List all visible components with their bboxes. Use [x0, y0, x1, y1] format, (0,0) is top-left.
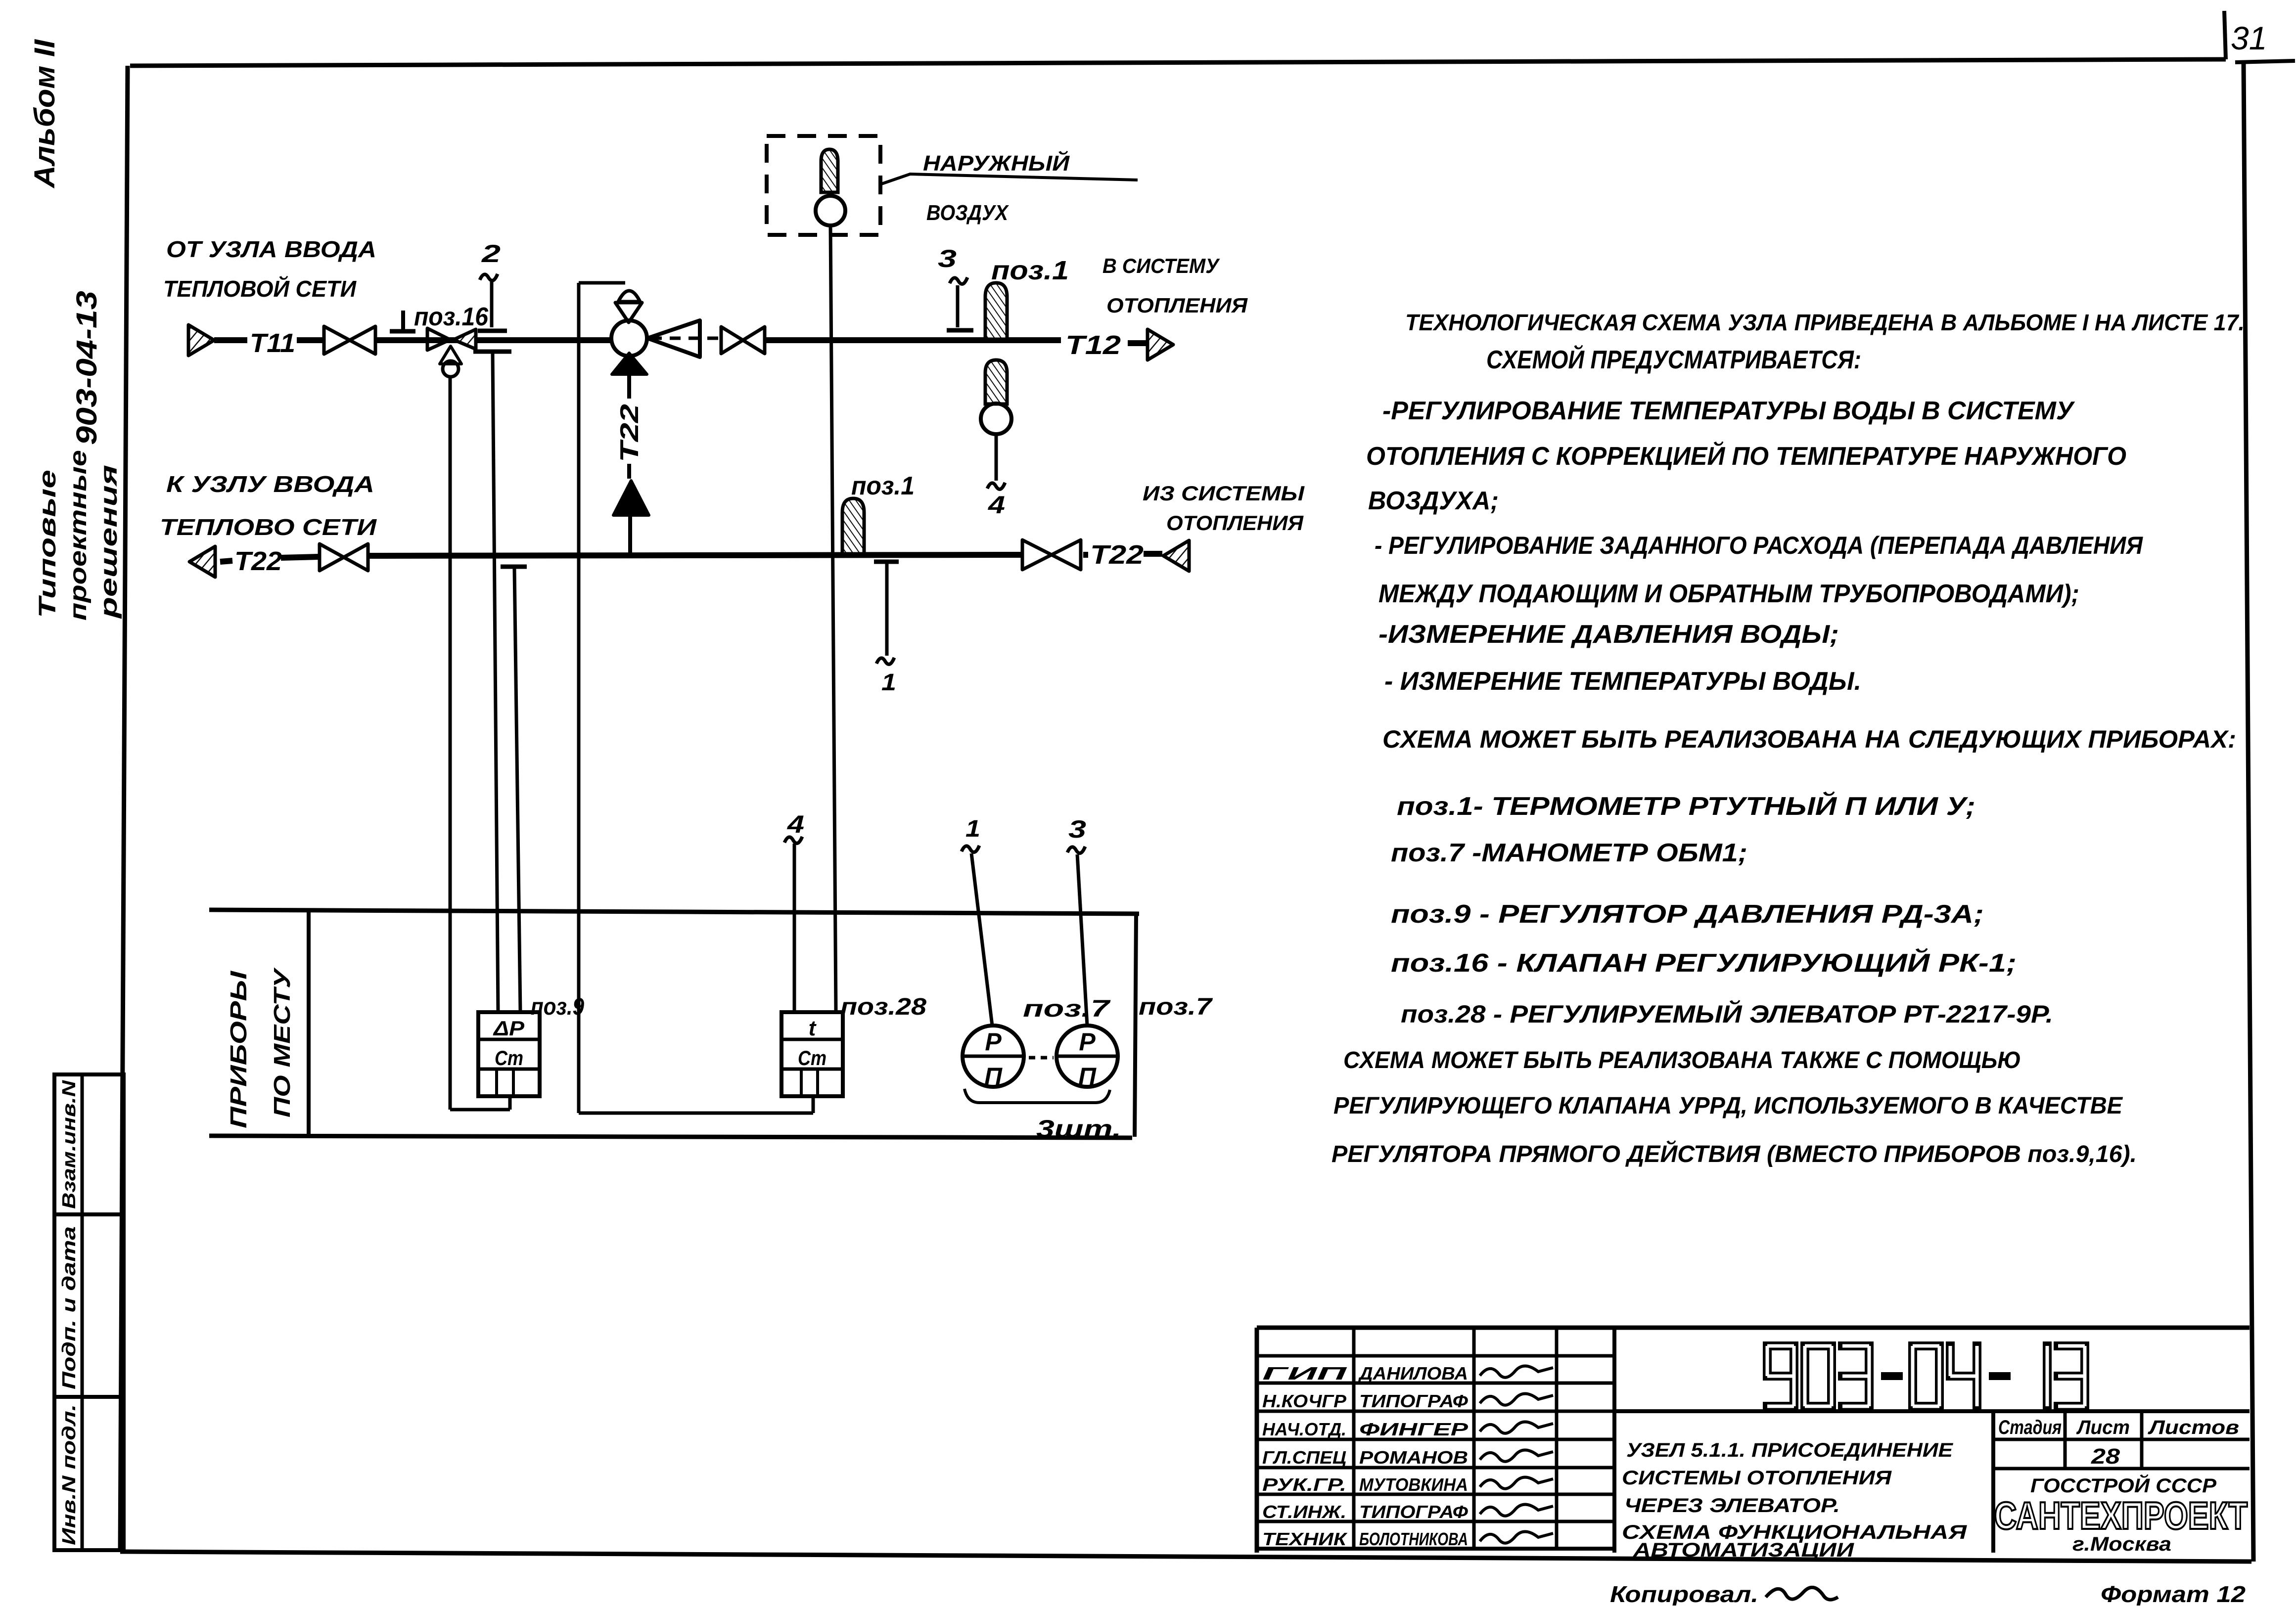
- svg-text:Подп. и дата: Подп. и дата: [59, 1226, 80, 1389]
- svg-text:1: 1: [881, 670, 896, 696]
- svg-text:поз.1: поз.1: [991, 256, 1069, 285]
- svg-text:РЕГУЛЯТОРА ПРЯМОГО ДЕЙСТВИЯ (В: РЕГУЛЯТОРА ПРЯМОГО ДЕЙСТВИЯ (ВМЕСТО ПРИБ…: [1332, 1140, 2137, 1167]
- regulating valve RK-1 (поз.16, 3-way): [427, 328, 450, 350]
- signatures: [1480, 1366, 1553, 1377]
- svg-text:3шт.: 3шт.: [1036, 1115, 1121, 1143]
- impulse line 3: [956, 285, 960, 327]
- suction triangle lower: [613, 481, 649, 515]
- document number 903-04-13 (large): [1767, 1346, 1794, 1406]
- border frame right: [2244, 62, 2253, 1562]
- mercury thermometer поз.1 on return: [842, 498, 864, 554]
- callout leader: [881, 174, 1138, 184]
- pipe T22 return line: [220, 561, 232, 562]
- border frame left: [120, 66, 128, 1552]
- svg-text:ФИНГЕР: ФИНГЕР: [1359, 1419, 1469, 1439]
- svg-text:поз.7 -МАНОМЕТР ОБМ1;: поз.7 -МАНОМЕТР ОБМ1;: [1391, 839, 1747, 867]
- svg-text:- ИЗМЕРЕНИЕ ТЕМПЕРАТУРЫ ВОДЫ.: - ИЗМЕРЕНИЕ ТЕМПЕРАТУРЫ ВОДЫ.: [1384, 667, 1861, 696]
- svg-text:поз.1: поз.1: [851, 472, 915, 500]
- svg-text:поз.7: поз.7: [1139, 994, 1213, 1020]
- svg-text:4: 4: [988, 491, 1005, 519]
- svg-text:ИЗ СИСТЕМЫ: ИЗ СИСТЕМЫ: [1143, 482, 1305, 505]
- svg-text:3: 3: [938, 245, 957, 272]
- svg-text:ОТОПЛЕНИЯ: ОТОПЛЕНИЯ: [1166, 511, 1304, 535]
- svg-text:СТ.ИНЖ.: СТ.ИНЖ.: [1262, 1502, 1346, 1522]
- svg-text:Копировал.: Копировал.: [1610, 1581, 1758, 1606]
- svg-text:Альбом II: Альбом II: [29, 39, 61, 189]
- gate valve on return left: [320, 544, 344, 571]
- svg-text:ВОЗДУХА;: ВОЗДУХА;: [1368, 487, 1499, 515]
- svg-text:Ст: Ст: [798, 1046, 827, 1070]
- svg-text:ПРИБОРЫ: ПРИБОРЫ: [226, 971, 251, 1128]
- suction branch with label T22: [627, 376, 631, 399]
- svg-text:Типовые: Типовые: [35, 470, 61, 618]
- panel boundary (приборы по месту): [209, 910, 1139, 914]
- sheet number 31: [2224, 11, 2226, 59]
- flow arrow into T11: [188, 325, 214, 356]
- svg-text:поз.16 - КЛАПАН РЕГУЛИРУЮЩИЙ Р: поз.16 - КЛАПАН РЕГУЛИРУЮЩИЙ РК-1;: [1391, 948, 2017, 978]
- gate valve on return right: [1022, 540, 1052, 570]
- svg-text:НАЧ.ОТД.: НАЧ.ОТД.: [1262, 1419, 1346, 1439]
- svg-text:МЕЖДУ ПОДАЮЩИМ И ОБРАТНЫМ ТРУБ: МЕЖДУ ПОДАЮЩИМ И ОБРАТНЫМ ТРУБОПРОВОДАМИ…: [1378, 580, 2079, 608]
- margin table (Взам.инв.N / Подп. и дата / Инв.N подл.): [54, 1074, 124, 1550]
- svg-text:П: П: [984, 1063, 1003, 1090]
- svg-text:г.Москва: г.Москва: [2072, 1533, 2171, 1555]
- regulated elevator поз.28 box: [781, 1012, 843, 1096]
- svg-text:СХЕМА МОЖЕТ БЫТЬ РЕАЛИЗОВАНА Н: СХЕМА МОЖЕТ БЫТЬ РЕАЛИЗОВАНА НА СЛЕДУЮЩИ…: [1382, 725, 2236, 753]
- svg-text:ТЕХНИК: ТЕХНИК: [1262, 1529, 1348, 1549]
- svg-text:К УЗЛУ ВВОДА: К УЗЛУ ВВОДА: [166, 471, 374, 497]
- svg-text:СХЕМОЙ ПРЕДУСМАТРИВАЕТСЯ:: СХЕМОЙ ПРЕДУСМАТРИВАЕТСЯ:: [1486, 345, 1861, 374]
- title block staff table rows: [1257, 1354, 1614, 1358]
- manometer поз.7 #1: [963, 1026, 1024, 1087]
- svg-text:Ст: Ст: [495, 1046, 523, 1070]
- svg-text:ОТОПЛЕНИЯ С КОРРЕКЦИЕЙ ПО ТЕМП: ОТОПЛЕНИЯ С КОРРЕКЦИЕЙ ПО ТЕМПЕРАТУРЕ НА…: [1366, 441, 2126, 471]
- svg-text:ПО МЕСТУ: ПО МЕСТУ: [269, 967, 295, 1117]
- elevator actuator dome: [618, 291, 640, 302]
- svg-text:31: 31: [2231, 20, 2267, 56]
- svg-text:Т22: Т22: [1090, 540, 1144, 570]
- manometer поз.7 #2: [1056, 1026, 1118, 1087]
- svg-text:БОЛОТНИКОВА: БОЛОТНИКОВА: [1359, 1529, 1468, 1549]
- dashed enclosure: наружный воздух sensor: [767, 136, 880, 235]
- svg-text:поз.7: поз.7: [1023, 996, 1111, 1022]
- svg-text:ОТОПЛЕНИЯ: ОТОПЛЕНИЯ: [1106, 294, 1248, 317]
- svg-text:Лист: Лист: [2076, 1417, 2130, 1438]
- svg-text:РЕГУЛИРУЮЩЕГО КЛАПАНА УРРД, ИС: РЕГУЛИРУЮЩЕГО КЛАПАНА УРРД, ИСПОЛЬЗУЕМОГ…: [1333, 1093, 2123, 1119]
- membrane actuator line from valve 16 down: [449, 377, 452, 1110]
- svg-text:САНТЕХПРОЕКТ: САНТЕХПРОЕКТ: [1994, 1494, 2248, 1537]
- svg-text:поз.1- ТЕРМОМЕТР РТУТНЫЙ П ИЛИ: поз.1- ТЕРМОМЕТР РТУТНЫЙ П ИЛИ У;: [1397, 791, 1975, 821]
- svg-text:ЧЕРЕЗ ЭЛЕВАТОР.: ЧЕРЕЗ ЭЛЕВАТОР.: [1624, 1495, 1840, 1517]
- svg-text:- РЕГУЛИРОВАНИЕ ЗАДАННОГО РАСХ: - РЕГУЛИРОВАНИЕ ЗАДАННОГО РАСХОДА (ПЕРЕП…: [1375, 532, 2143, 559]
- gate valve right of elevator: [721, 327, 743, 354]
- svg-text:поз.16: поз.16: [414, 303, 489, 331]
- svg-text:ΔР: ΔР: [493, 1017, 525, 1040]
- mercury thermometer поз.1 on supply: [985, 283, 1007, 339]
- svg-text:П: П: [1078, 1063, 1097, 1090]
- title block outer: [1257, 1326, 2250, 1330]
- title block staff table columns: [1352, 1328, 1356, 1549]
- impulse point 1 tap on return: [874, 560, 899, 564]
- svg-text:ТИПОГРАФ: ТИПОГРАФ: [1359, 1391, 1468, 1411]
- svg-text:НАРУЖНЫЙ: НАРУЖНЫЙ: [923, 150, 1070, 176]
- svg-text:В СИСТЕМУ: В СИСТЕМУ: [1102, 254, 1220, 277]
- svg-text:АВТОМАТИЗАЦИИ: АВТОМАТИЗАЦИИ: [1633, 1539, 1855, 1561]
- pipe T11-T12 supply line: [214, 337, 247, 343]
- svg-text:1: 1: [965, 816, 980, 842]
- dashed link between manometers: [1029, 1056, 1054, 1060]
- impulse tap to поз.9 from return: [501, 565, 527, 569]
- pressure regulator поз.9 box: [478, 1012, 540, 1096]
- svg-text:ТЕХНОЛОГИЧЕСКАЯ СХЕМА УЗЛА ПРИ: ТЕХНОЛОГИЧЕСКАЯ СХЕМА УЗЛА ПРИВЕДЕНА В А…: [1405, 310, 2245, 335]
- svg-text:3: 3: [1068, 815, 1086, 843]
- svg-text:ГОССТРОЙ СССР: ГОССТРОЙ СССР: [2030, 1474, 2216, 1497]
- elevator body (регулируемый элеватор поз.28): [611, 320, 647, 356]
- stage/sheet table: [1991, 1411, 1995, 1553]
- svg-text:Т22: Т22: [615, 404, 644, 462]
- svg-text:Н.КОЧГР: Н.КОЧГР: [1262, 1391, 1347, 1411]
- impulse tap stub left of valve 16: [401, 311, 405, 329]
- svg-text:28: 28: [2091, 1444, 2120, 1469]
- svg-text:903-04-13: 903-04-13: [71, 291, 103, 445]
- svg-text:ОТ УЗЛА ВВОДА: ОТ УЗЛА ВВОДА: [166, 236, 376, 262]
- svg-text:Стадия: Стадия: [1998, 1417, 2062, 1438]
- svg-text:проектные: проектные: [65, 450, 92, 621]
- svg-text:-РЕГУЛИРОВАНИЕ ТЕМПЕРАТУРЫ ВОД: -РЕГУЛИРОВАНИЕ ТЕМПЕРАТУРЫ ВОДЫ В СИСТЕМ…: [1382, 397, 2075, 425]
- svg-text:Т11: Т11: [250, 328, 295, 358]
- svg-text:Т22: Т22: [234, 546, 282, 576]
- svg-text:МУТОВКИНА: МУТОВКИНА: [1359, 1474, 1468, 1495]
- border frame bottom: [120, 1552, 2251, 1562]
- svg-text:ГЛ.СПЕЦ: ГЛ.СПЕЦ: [1262, 1447, 1346, 1468]
- svg-text:СХЕМА МОЖЕТ БЫТЬ РЕАЛИЗОВАНА Т: СХЕМА МОЖЕТ БЫТЬ РЕАЛИЗОВАНА ТАКЖЕ С ПОМ…: [1343, 1047, 2021, 1073]
- svg-text:t: t: [809, 1016, 817, 1040]
- svg-text:ТЕПЛОВО СЕТИ: ТЕПЛОВО СЕТИ: [160, 514, 377, 540]
- flow arrow return from system: [1163, 540, 1189, 571]
- svg-text:поз.28: поз.28: [840, 994, 926, 1020]
- impulse line 2 with bars across pipe: [490, 282, 494, 327]
- outdoor thermometer bulb: [821, 149, 838, 192]
- svg-text:Взам.инв.N: Взам.инв.N: [59, 1079, 80, 1209]
- elevator nozzle cone: [647, 320, 700, 357]
- flow arrow out T22 left: [189, 546, 215, 577]
- svg-text:-ИЗМЕРЕНИЕ ДАВЛЕНИЯ ВОДЫ;: -ИЗМЕРЕНИЕ ДАВЛЕНИЯ ВОДЫ;: [1378, 620, 1839, 649]
- svg-text:ТИПОГРАФ: ТИПОГРАФ: [1359, 1502, 1468, 1522]
- svg-text:Р: Р: [985, 1028, 1002, 1056]
- svg-text:поз.9: поз.9: [531, 994, 584, 1020]
- elevator suction triangle upper: [612, 353, 647, 374]
- svg-text:Инв.N подл.: Инв.N подл.: [59, 1404, 80, 1545]
- svg-text:Р: Р: [1079, 1028, 1096, 1056]
- svg-text:ДАНИЛОВА: ДАНИЛОВА: [1358, 1363, 1468, 1384]
- svg-text:СИСТЕМЫ ОТОПЛЕНИЯ: СИСТЕМЫ ОТОПЛЕНИЯ: [1622, 1467, 1892, 1489]
- svg-text:2: 2: [481, 240, 501, 268]
- gate valve on T11: [324, 326, 350, 354]
- svg-text:ВОЗДУХ: ВОЗДУХ: [926, 201, 1009, 225]
- svg-text:УЗЕЛ 5.1.1. ПРИСОЕДИНЕНИЕ: УЗЕЛ 5.1.1. ПРИСОЕДИНЕНИЕ: [1626, 1439, 1953, 1461]
- dial thermometer item 4 under supply pipe: [985, 360, 1007, 404]
- svg-text:поз.28 - РЕГУЛИРУЕМЫЙ ЭЛЕВАТОР: поз.28 - РЕГУЛИРУЕМЫЙ ЭЛЕВАТОР РТ-2217-9…: [1401, 1000, 2053, 1028]
- svg-text:Т12: Т12: [1065, 330, 1121, 360]
- flow arrow out T12: [1148, 329, 1173, 360]
- svg-text:РУК.ГР.: РУК.ГР.: [1262, 1474, 1346, 1495]
- svg-text:Листов: Листов: [2148, 1417, 2239, 1438]
- svg-text:Формат 12: Формат 12: [2101, 1581, 2246, 1606]
- svg-text:ГИП: ГИП: [1262, 1363, 1348, 1384]
- svg-text:РОМАНОВ: РОМАНОВ: [1359, 1447, 1468, 1468]
- svg-text:4: 4: [787, 810, 804, 838]
- svg-text:решения: решения: [96, 465, 122, 620]
- bracket 3 шт: [964, 1089, 1110, 1103]
- svg-text:поз.9 - РЕГУЛЯТОР ДАВЛЕНИЯ РД-: поз.9 - РЕГУЛЯТОР ДАВЛЕНИЯ РД-3А;: [1391, 900, 1984, 929]
- border frame top: [130, 59, 2226, 66]
- svg-text:ТЕПЛОВОЙ СЕТИ: ТЕПЛОВОЙ СЕТИ: [163, 276, 357, 302]
- sensor signal line down to panel: [830, 225, 836, 1012]
- actuator link line to elevator: [579, 281, 625, 285]
